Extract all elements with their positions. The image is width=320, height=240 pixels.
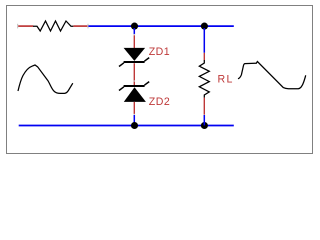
- svg-text:RL: RL: [218, 74, 234, 86]
- wire between ZD1 and ZD2: [133, 63, 135, 85]
- wire RL to bottom rail: [203, 115, 205, 125]
- pin stub ZD2 anode: [133, 102, 135, 115]
- output clipped waveform: [238, 62, 306, 89]
- node junction dot bottom-left: [131, 122, 138, 129]
- zener diode ZD2: [119, 82, 149, 102]
- resistor RL: [199, 53, 209, 115]
- node junction dot bottom-right: [201, 122, 208, 129]
- wire top rail to RL: [203, 28, 205, 53]
- node junction dot top-left: [131, 23, 138, 30]
- wire top rail: [88, 25, 233, 27]
- svg-text:ZD1: ZD1: [149, 46, 170, 58]
- resistor R1 (series resistor): [18, 21, 88, 31]
- wire bottom rail: [19, 125, 234, 127]
- zener diode ZD1: [119, 48, 149, 67]
- svg-text:ZD2: ZD2: [149, 96, 170, 108]
- pin stub ZD1 cathode: [133, 34, 135, 48]
- node junction dot top-right: [201, 23, 208, 30]
- wire ZD2 to bottom rail: [133, 115, 135, 125]
- wire from top rail to ZD1: [133, 28, 135, 34]
- input sine waveform: [18, 65, 73, 93]
